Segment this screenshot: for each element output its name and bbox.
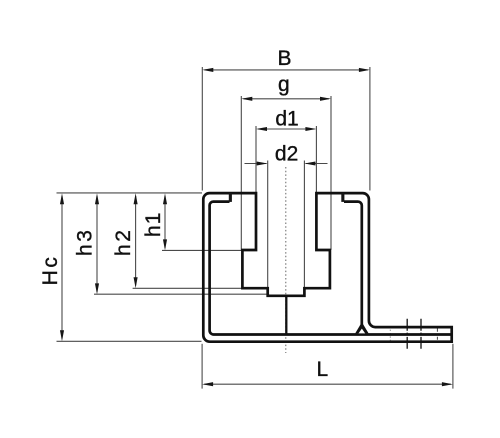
svg-text:h1: h1 — [142, 212, 165, 237]
svg-text:h2: h2 — [112, 228, 135, 256]
svg-text:B: B — [277, 47, 291, 70]
svg-text:Hc: Hc — [39, 255, 62, 286]
svg-text:d1: d1 — [275, 108, 298, 131]
svg-text:g: g — [278, 73, 290, 96]
svg-text:d2: d2 — [275, 142, 298, 165]
svg-text:L: L — [316, 358, 328, 381]
svg-text:h3: h3 — [73, 228, 96, 256]
